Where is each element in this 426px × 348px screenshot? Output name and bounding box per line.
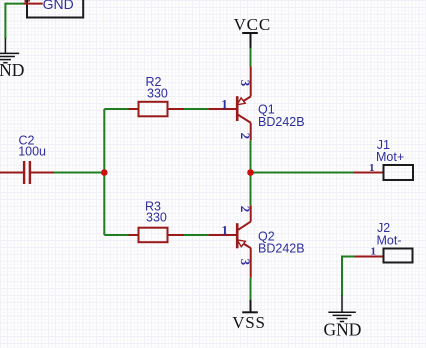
- svg-text:1: 1: [369, 162, 375, 174]
- connector J1 (box): [384, 165, 414, 180]
- svg-text:2: 2: [238, 133, 253, 140]
- wire junction to J1: [251, 172, 354, 174]
- connector J2 (box): [384, 249, 413, 263]
- junction dot A: [101, 169, 108, 176]
- svg-text:Mot-: Mot-: [377, 234, 402, 248]
- wire VCC to Q1: [250, 48, 252, 67]
- svg-text:330: 330: [147, 86, 168, 100]
- pin 1 (base) stub: [208, 234, 237, 236]
- wire Q1 pin2 to junction: [250, 140, 252, 172]
- ground symbol top-left: [0, 38, 19, 62]
- svg-text:BD242B: BD242B: [258, 241, 305, 255]
- emitter diagonal (pin 3): [244, 96, 251, 101]
- vertical rail wire: [103, 109, 105, 235]
- svg-text:GND: GND: [323, 319, 361, 339]
- resistor R2: [129, 102, 185, 117]
- svg-text:1: 1: [221, 96, 228, 111]
- wire top-left: [5, 4, 23, 39]
- svg-text:VCC: VCC: [234, 15, 271, 34]
- svg-text:Mot+: Mot+: [376, 150, 404, 164]
- wire R3 to Q2 base: [184, 234, 208, 236]
- wire junction to Q2 pin2: [250, 173, 252, 206]
- wire Q2 pin3 to VSS: [250, 278, 252, 300]
- VCC supply symbol: [242, 33, 258, 48]
- svg-text:330: 330: [146, 210, 167, 224]
- wire J2 to ground: [342, 257, 355, 297]
- svg-text:BD242B: BD242B: [258, 115, 305, 129]
- ground symbol bottom-right: [328, 296, 355, 322]
- svg-text:100u: 100u: [18, 145, 46, 159]
- VSS supply symbol: [242, 300, 258, 313]
- emitter arrow: [237, 240, 245, 247]
- wire R2 to Q1 base: [184, 108, 208, 110]
- pin 1 (base) stub: [208, 108, 237, 110]
- svg-text:1: 1: [222, 222, 229, 237]
- collector diagonal (pin 2): [237, 221, 251, 230]
- junction dot B: [247, 169, 254, 176]
- pin of J1: [354, 172, 384, 174]
- svg-text:GND: GND: [0, 60, 24, 80]
- pin 3 vertical: [250, 67, 252, 97]
- svg-text:3: 3: [238, 259, 253, 266]
- wire C2 to junction: [54, 172, 104, 174]
- emitter diagonal (pin 3): [244, 244, 251, 248]
- pin of J2: [355, 256, 384, 258]
- svg-text:2: 2: [238, 206, 253, 213]
- pin label P (clipped): [25, 0, 30, 2]
- emitter arrow: [237, 98, 245, 105]
- base bar: [236, 223, 239, 248]
- svg-text:VSS: VSS: [232, 313, 266, 332]
- base bar: [236, 96, 239, 121]
- wire rail to R2: [104, 108, 128, 110]
- capacitor C2: [0, 161, 54, 184]
- pin of top-left connector: [24, 3, 43, 5]
- transistor Q2 (PNP): [208, 205, 251, 277]
- svg-text:3: 3: [238, 80, 253, 87]
- wire rail to R3: [104, 234, 128, 236]
- svg-text:1: 1: [371, 246, 377, 258]
- pin 3 vertical: [250, 248, 252, 278]
- pin 2 vertical: [250, 123, 252, 140]
- collector diagonal (pin 2): [237, 114, 251, 123]
- resistor R3: [129, 228, 185, 243]
- svg-text:GND: GND: [43, 0, 74, 12]
- transistor Q1 (PNP): [208, 67, 251, 141]
- pin 2 vertical: [250, 205, 252, 221]
- connector top-left (box): [27, 0, 83, 18]
